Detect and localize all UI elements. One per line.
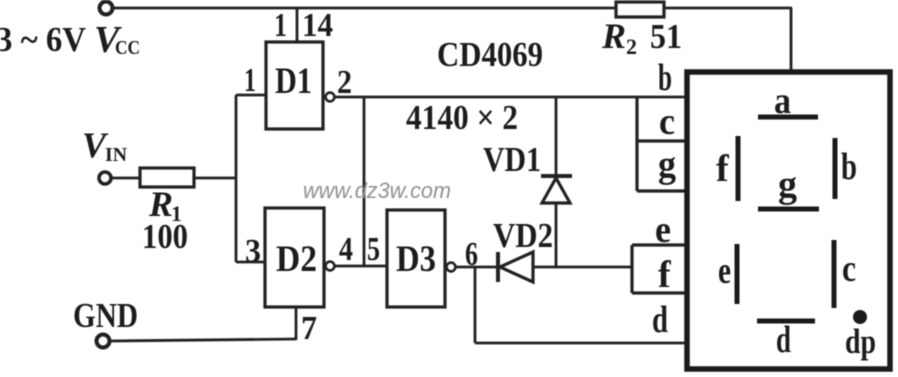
wire VD2 to display f box	[533, 266, 632, 269]
svg-text:www.dz3w.com: www.dz3w.com	[303, 178, 451, 203]
resistor R2	[616, 2, 664, 17]
wire D2 out to D3 in	[335, 265, 387, 268]
svg-text:100: 100	[142, 217, 188, 256]
terminal Vcc	[100, 2, 113, 15]
display box	[687, 72, 890, 369]
svg-text:D2: D2	[276, 239, 317, 280]
svg-text:5: 5	[367, 231, 380, 268]
segment dp dot	[853, 310, 867, 324]
svg-text:3: 3	[245, 233, 261, 270]
svg-text:D1: D1	[275, 61, 312, 102]
svg-text:CC: CC	[115, 37, 140, 59]
wire R1 to bus	[194, 177, 236, 180]
svg-text:a: a	[774, 80, 791, 122]
svg-text:f: f	[658, 254, 672, 296]
wire D2 bottom pin 7	[295, 307, 298, 340]
svg-text:b: b	[841, 146, 857, 188]
svg-text:51: 51	[650, 17, 682, 56]
svg-text:2: 2	[337, 64, 352, 101]
svg-text:D3: D3	[396, 239, 436, 280]
wire VD1 vertical top	[555, 97, 558, 175]
wire GND to pin 7	[110, 339, 296, 341]
svg-text:c: c	[659, 101, 675, 143]
svg-text:dp: dp	[845, 322, 876, 361]
svg-text:1: 1	[274, 7, 287, 44]
svg-text:e: e	[655, 209, 671, 251]
svg-text:GND: GND	[73, 296, 138, 335]
segment a	[758, 115, 818, 120]
svg-text:R: R	[601, 16, 626, 56]
svg-text:VD1: VD1	[483, 140, 541, 179]
svg-text:IN: IN	[105, 144, 128, 166]
svg-text:e: e	[718, 250, 731, 292]
wire top rail right of R2	[664, 7, 792, 10]
svg-text:b: b	[658, 57, 672, 99]
node box e/f	[632, 245, 687, 293]
segment c	[832, 240, 837, 308]
segment f	[736, 136, 741, 201]
svg-text:g: g	[778, 164, 797, 206]
resistor R1	[140, 168, 194, 187]
D1 output bubble	[326, 93, 335, 102]
svg-text:2: 2	[626, 34, 637, 59]
segment b	[833, 138, 838, 199]
op-amp D1 inverter box	[266, 42, 323, 129]
svg-text:3 ~ 6V: 3 ~ 6V	[0, 20, 86, 59]
wire vertical from D1 output to node 4/5	[363, 97, 366, 266]
segment d	[757, 319, 815, 324]
svg-text:d: d	[776, 319, 791, 361]
wire D1 output to display b	[335, 96, 687, 99]
svg-text:f: f	[716, 148, 730, 190]
svg-text:4: 4	[339, 231, 353, 268]
diode VD1	[541, 176, 572, 203]
segment g	[758, 207, 819, 212]
wire D1 top pin	[296, 8, 299, 42]
wire D1 input	[236, 94, 266, 97]
D3 output bubble	[447, 263, 456, 272]
diode VD2	[498, 252, 533, 282]
svg-text:c: c	[842, 248, 856, 290]
wire down to display top pin	[790, 8, 793, 72]
svg-text:g: g	[658, 144, 676, 186]
wire D2 input	[236, 261, 265, 264]
wire VD1 vertical bottom	[555, 203, 558, 267]
terminal GND	[97, 335, 110, 348]
svg-text:4140 × 2: 4140 × 2	[406, 98, 518, 137]
svg-text:d: d	[652, 299, 668, 341]
segment e	[735, 244, 740, 304]
svg-text:1: 1	[244, 62, 256, 99]
D2 output bubble	[326, 262, 335, 271]
wire top rail left	[112, 7, 616, 10]
svg-text:CD4069: CD4069	[437, 35, 543, 74]
wire Vin to R1	[111, 177, 140, 180]
svg-text:14: 14	[302, 7, 333, 44]
op-amp D3 inverter box	[387, 210, 445, 307]
terminal Vin	[99, 172, 111, 184]
wire D3 out to VD2	[456, 266, 498, 269]
wire left vertical bus	[235, 95, 238, 262]
wire d loop vertical	[474, 267, 477, 343]
svg-text:VD2: VD2	[493, 216, 553, 255]
op-amp D2 inverter box	[265, 208, 324, 307]
wire d loop horizontal	[475, 342, 687, 345]
node box c/g ladder	[637, 97, 687, 191]
svg-text:7: 7	[301, 310, 317, 347]
